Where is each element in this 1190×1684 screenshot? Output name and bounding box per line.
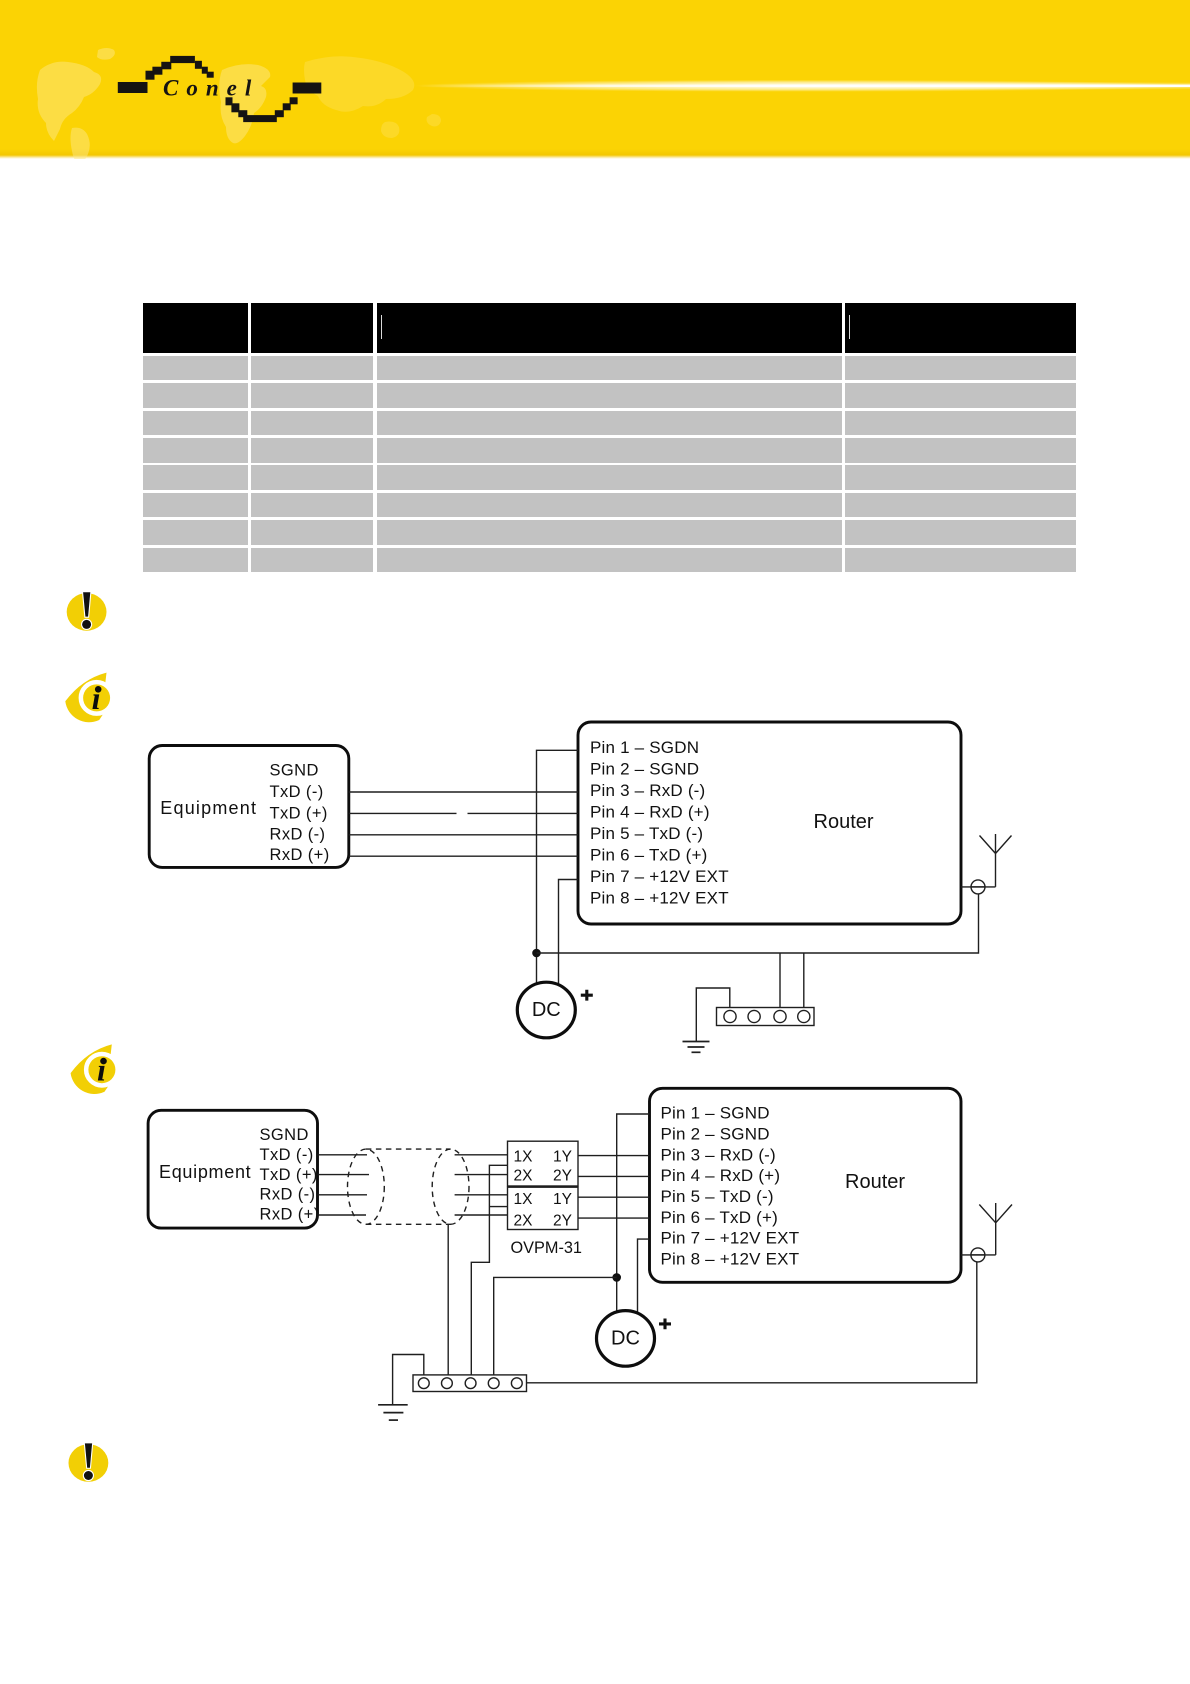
svg-text:Conel: Conel xyxy=(163,76,259,101)
wire Pin1/SGND down to DC minus D1 xyxy=(537,750,579,983)
wire block to antenna D2 xyxy=(527,1262,977,1383)
svg-text:Pin 8 – +12V EXT: Pin 8 – +12V EXT xyxy=(661,1250,800,1269)
svg-text:Pin 7 – +12V EXT: Pin 7 – +12V EXT xyxy=(590,867,729,886)
svg-text:Pin 5 – TxD (-): Pin 5 – TxD (-) xyxy=(661,1187,774,1206)
svg-text:SGND: SGND xyxy=(270,762,319,780)
svg-text:TxD (+): TxD (+) xyxy=(270,805,328,823)
svg-text:1X: 1X xyxy=(514,1148,534,1165)
svg-text:DC: DC xyxy=(611,1328,640,1350)
svg-text:Pin 3 – RxD (-): Pin 3 – RxD (-) xyxy=(661,1145,776,1164)
terminal block D2 xyxy=(413,1375,527,1392)
OVPM ground wire D2 xyxy=(471,1165,507,1375)
wire TxD(-) to Pin3 D1 xyxy=(349,791,578,793)
plus sign D2 xyxy=(659,1319,671,1330)
OVPM-31 surge protector boxes xyxy=(508,1141,582,1257)
shielded cable cylinder D2 xyxy=(348,1149,470,1224)
svg-text:OVPM-31: OVPM-31 xyxy=(511,1239,582,1257)
antenna D1 xyxy=(961,834,1012,894)
OVPM box2 ground stub D2 xyxy=(489,1206,507,1208)
svg-text:Pin 2 – SGND: Pin 2 – SGND xyxy=(590,760,699,779)
wire 1Y to Pin3 D2 xyxy=(578,1155,650,1157)
svg-text:Pin 6 – TxD (+): Pin 6 – TxD (+) xyxy=(590,846,707,865)
svg-text:SGND: SGND xyxy=(260,1126,309,1144)
info icon 1 xyxy=(65,673,112,723)
info icon 2 xyxy=(71,1044,118,1094)
wire junction to antenna ground D1 xyxy=(537,894,979,953)
svg-text:Router: Router xyxy=(845,1171,905,1193)
wire Pin7 down to DC plus D1 xyxy=(559,880,579,985)
svg-text:Pin 8 – +12V EXT: Pin 8 – +12V EXT xyxy=(590,889,729,908)
yellow header band xyxy=(0,0,1190,159)
svg-text:2X: 2X xyxy=(514,1212,534,1229)
plus sign D1 xyxy=(581,990,593,1001)
junction dot D1 xyxy=(532,949,541,958)
wire 1Y to Pin5 D2 xyxy=(578,1196,650,1198)
wire branch to terminal 4 D1 xyxy=(803,953,805,1008)
wire TxD(+) to Pin4 D1 (with scan gap) xyxy=(349,812,578,814)
warning icon 2 xyxy=(69,1443,109,1481)
svg-text:Equipment: Equipment xyxy=(159,1162,251,1182)
wire TxD(-) through cable D2 xyxy=(318,1154,508,1156)
Conel logo xyxy=(118,56,322,122)
wire branch to terminal 3 D1 xyxy=(779,953,781,1008)
svg-text:Pin 4 – RxD (+): Pin 4 – RxD (+) xyxy=(661,1166,781,1185)
svg-text:2Y: 2Y xyxy=(553,1212,572,1229)
wire terminal1 to ground D1 xyxy=(696,988,730,1041)
svg-text:DC: DC xyxy=(532,999,561,1021)
svg-text:Pin 3 – RxD (-): Pin 3 – RxD (-) xyxy=(590,781,705,800)
svg-text:RxD (+): RxD (+) xyxy=(260,1205,320,1223)
junction dot D2 xyxy=(612,1273,621,1282)
svg-text:2Y: 2Y xyxy=(553,1168,572,1185)
svg-text:Pin 4 – RxD (+): Pin 4 – RxD (+) xyxy=(590,803,710,822)
svg-text:Router: Router xyxy=(814,811,874,833)
router box D2 xyxy=(650,1088,962,1282)
wire RxD(-) through cable D2 xyxy=(318,1194,508,1196)
warning icon 1 xyxy=(67,592,107,630)
svg-text:1Y: 1Y xyxy=(553,1191,572,1208)
wire Pin1/SGND down to DC and block D2 xyxy=(617,1114,650,1312)
svg-text:TxD (-): TxD (-) xyxy=(260,1146,314,1164)
svg-text:RxD (-): RxD (-) xyxy=(270,826,326,844)
wire RxD(+) through cable D2 xyxy=(318,1214,508,1216)
redacted table header row xyxy=(143,303,247,353)
wire TxD(+) through cable D2 xyxy=(318,1174,508,1176)
svg-text:Pin 7 – +12V EXT: Pin 7 – +12V EXT xyxy=(661,1229,800,1248)
ground symbol D2 xyxy=(378,1405,408,1420)
svg-text:Pin 1 – SGDN: Pin 1 – SGDN xyxy=(590,738,699,757)
faint world map xyxy=(37,48,441,164)
svg-text:Pin 5 – TxD (-): Pin 5 – TxD (-) xyxy=(590,824,703,843)
svg-text:1X: 1X xyxy=(514,1191,534,1208)
DC source circle D1 xyxy=(517,982,575,1038)
svg-text:RxD (+): RxD (+) xyxy=(270,846,330,864)
svg-text:i: i xyxy=(97,1052,106,1088)
svg-text:RxD (-): RxD (-) xyxy=(260,1186,316,1204)
svg-text:Pin 2 – SGND: Pin 2 – SGND xyxy=(661,1125,770,1144)
svg-text:TxD (-): TxD (-) xyxy=(270,783,324,801)
wire RxD(+) to Pin6 D1 xyxy=(349,855,578,857)
wire 2Y to Pin6 D2 xyxy=(578,1217,650,1219)
wire 2Y to Pin4 D2 xyxy=(578,1175,650,1177)
ground symbol D1 xyxy=(683,1042,710,1053)
wire RxD(-) to Pin5 D1 xyxy=(349,834,578,836)
svg-text:i: i xyxy=(92,680,101,716)
svg-text:2X: 2X xyxy=(514,1168,534,1185)
svg-text:Pin 6 – TxD (+): Pin 6 – TxD (+) xyxy=(661,1208,778,1227)
equipment box D1 xyxy=(149,746,349,868)
svg-text:TxD (+): TxD (+) xyxy=(260,1166,318,1184)
router box D1 xyxy=(578,722,961,924)
redacted table body rows xyxy=(143,356,247,381)
svg-text:Pin 1 – SGND: Pin 1 – SGND xyxy=(661,1104,770,1123)
svg-text:Equipment: Equipment xyxy=(160,798,257,818)
DC source circle D2 xyxy=(597,1311,655,1367)
antenna D2 xyxy=(961,1203,1012,1262)
white light streak xyxy=(413,80,1190,92)
wire terminal1 to ground D2 xyxy=(393,1355,424,1405)
terminal block D1 xyxy=(717,1008,815,1026)
equipment box D2 xyxy=(148,1110,319,1228)
svg-text:1Y: 1Y xyxy=(553,1148,572,1165)
wire Pin7 down to DC plus D2 xyxy=(638,1239,650,1314)
cable shield ground wire D2 xyxy=(447,1224,449,1375)
wire junction left to terminal 4 D2 xyxy=(494,1277,617,1375)
